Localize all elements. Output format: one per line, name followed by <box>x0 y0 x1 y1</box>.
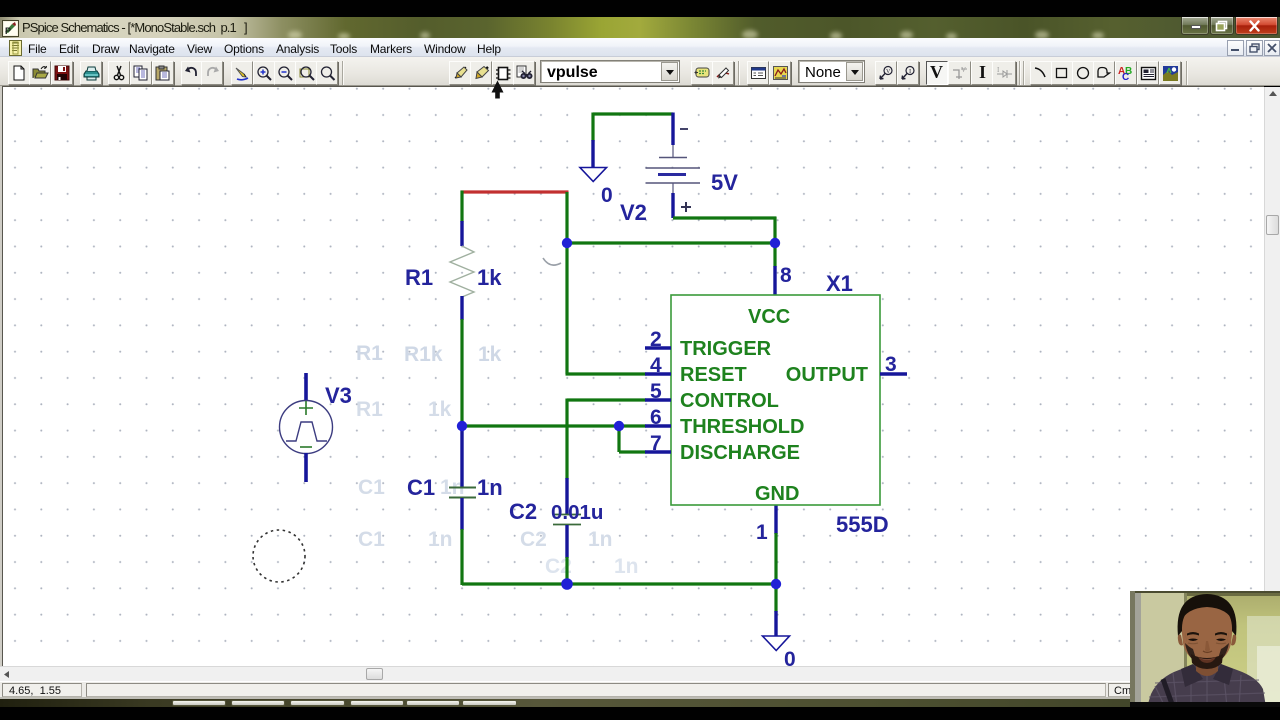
source V3 <box>280 373 333 482</box>
ghost text C1 row <box>358 476 465 499</box>
collar <box>1181 664 1203 687</box>
svg-text:THRESHOLD: THRESHOLD <box>680 416 804 438</box>
print <box>80 61 102 85</box>
wire battery left drop <box>591 113 594 142</box>
pin 4 stub <box>645 372 671 375</box>
copy <box>130 61 152 85</box>
svg-text:1k: 1k <box>428 398 452 421</box>
I marker <box>971 61 993 85</box>
svg-text:TRIGGER: TRIGGER <box>680 338 772 360</box>
ground symbol 0 at IC <box>763 636 790 651</box>
I advanced marker (disabled) <box>992 61 1016 85</box>
eyes <box>1188 639 1198 642</box>
V advanced marker (disabled) <box>948 61 971 85</box>
svg-text:1n: 1n <box>614 555 639 578</box>
battery V2 plate short top <box>659 157 687 159</box>
svg-text:V2: V2 <box>620 200 647 225</box>
wire top battery horizontal <box>593 112 673 115</box>
resistor R1 <box>450 221 474 320</box>
beard <box>1185 643 1197 662</box>
current zoom <box>897 61 919 85</box>
ghost text C2 1n row1 <box>520 528 613 551</box>
battery V2 plate long upper <box>646 167 701 169</box>
wire red corner down to node <box>565 192 568 243</box>
battery V2 plate long lower <box>646 182 701 184</box>
face shading <box>1185 631 1229 659</box>
wire rail drop to node <box>773 217 776 244</box>
svg-text:3: 3 <box>885 353 897 376</box>
draw bus <box>470 61 492 85</box>
wire gnd pin to bus <box>774 533 777 612</box>
svg-text:5V: 5V <box>711 170 738 195</box>
wire threshold node to discharge <box>619 426 646 452</box>
pin 7 stub <box>645 450 671 453</box>
svg-text:R1: R1 <box>356 342 383 365</box>
title bar <box>0 17 1280 38</box>
horizontal scrollbar <box>0 666 1280 681</box>
svg-text:1k: 1k <box>477 265 502 290</box>
cut <box>108 61 130 85</box>
ghost text C1 1n row2 <box>358 528 453 551</box>
wire ground bus <box>462 582 776 585</box>
svg-text:1: 1 <box>756 521 768 544</box>
svg-text:5: 5 <box>650 380 662 403</box>
webcam overlay <box>1130 591 1280 707</box>
svg-text:R1: R1 <box>405 265 433 290</box>
mouth <box>1198 657 1216 663</box>
junction node vcc-left <box>562 238 572 248</box>
svg-text:X1: X1 <box>826 271 853 296</box>
svg-text:555D: 555D <box>836 512 889 537</box>
redo (disabled) <box>201 61 223 85</box>
text tool <box>1115 61 1137 85</box>
head base <box>1181 603 1233 664</box>
simulate <box>769 61 791 85</box>
svg-text:C1: C1 <box>358 476 385 499</box>
capacitor C1 <box>449 427 476 530</box>
draw wire <box>449 61 471 85</box>
pin 3 stub <box>880 372 907 375</box>
new <box>8 61 30 85</box>
battery V2 top pin <box>671 113 674 146</box>
vpulse combo <box>540 60 680 83</box>
battery V2 minus sign <box>680 128 688 130</box>
get new part <box>513 61 535 85</box>
window side edges <box>0 86 2 681</box>
ground pin below bus <box>774 611 777 636</box>
paste <box>152 61 174 85</box>
pin 1 stub <box>774 505 777 534</box>
draw wire pencil <box>231 61 253 85</box>
wire C1 bottom <box>460 529 463 585</box>
zoom out <box>274 61 296 85</box>
mouse cursor arrow <box>492 81 504 99</box>
part tag button <box>691 61 713 85</box>
svg-text:R1: R1 <box>356 398 383 421</box>
svg-text:R1k: R1k <box>404 343 443 366</box>
battery V2 plate short thick <box>658 173 686 176</box>
pin 6 stub <box>645 424 671 427</box>
svg-text:4: 4 <box>650 354 662 377</box>
svg-text:V3: V3 <box>325 383 352 408</box>
wire control horizontal <box>567 398 646 401</box>
svg-text:8: 8 <box>780 264 792 287</box>
svg-text:C1: C1 <box>407 475 435 500</box>
shirt <box>1147 664 1266 707</box>
ghost circle <box>253 530 305 582</box>
save <box>51 61 73 85</box>
junction node gndbus-ic <box>771 579 781 589</box>
status bar <box>0 681 1280 697</box>
wire R1 bottom to threshold node <box>460 319 463 427</box>
svg-text:1n: 1n <box>588 528 613 551</box>
wire node to pin8 <box>773 243 776 267</box>
capacitor C2 <box>553 478 581 558</box>
V marker (active) <box>926 61 948 85</box>
svg-text:0: 0 <box>784 648 796 671</box>
svg-text:0: 0 <box>601 184 613 207</box>
svg-text:RESET: RESET <box>680 364 747 386</box>
edit symbol button <box>712 61 734 85</box>
wire control down to C2 <box>565 399 568 480</box>
pin 8 stub <box>773 266 776 295</box>
svg-text:1n: 1n <box>428 528 453 551</box>
wire R1 top <box>460 191 463 223</box>
ghost text C2 1n row2 <box>545 555 639 578</box>
ghost text R1 row2 <box>356 398 452 421</box>
undo <box>181 61 203 85</box>
svg-text:1k: 1k <box>478 343 502 366</box>
wire red segment <box>461 190 569 193</box>
ghost arc mark <box>543 258 561 265</box>
ground GND0 pin at V2 <box>591 140 594 167</box>
draw box tool <box>1051 61 1073 85</box>
wire node down to reset <box>565 243 568 374</box>
bottom strips <box>0 697 1280 699</box>
wire threshold horizontal <box>462 424 646 427</box>
svg-text:DISCHARGE: DISCHARGE <box>680 442 800 464</box>
wire C2 bottom <box>565 557 568 585</box>
insert picture tool <box>1159 61 1181 85</box>
nose <box>1205 641 1210 652</box>
pin 5 stub <box>645 398 671 401</box>
caption buttons <box>1181 17 1209 35</box>
svg-text:6: 6 <box>650 406 662 429</box>
strap <box>1163 679 1173 707</box>
wire to reset pin4 <box>566 372 647 375</box>
ghost text R1 row1 <box>356 342 502 366</box>
svg-text:2: 2 <box>650 328 662 351</box>
battery V2 bottom pin <box>671 193 674 218</box>
battery V2 plus lead <box>672 183 674 194</box>
ears <box>1178 635 1183 646</box>
svg-text:OUTPUT: OUTPUT <box>786 364 868 386</box>
svg-text:C2: C2 <box>520 528 547 551</box>
junction node threshold-right <box>614 421 624 431</box>
open <box>29 61 51 85</box>
text frame tool <box>1137 61 1159 85</box>
black top letterbox <box>0 0 1280 17</box>
zoom page <box>316 61 338 85</box>
eyebrows <box>1187 632 1199 636</box>
svg-text:GND: GND <box>755 483 799 505</box>
junction node threshold-left <box>457 421 467 431</box>
svg-text:CONTROL: CONTROL <box>680 390 779 412</box>
wire battery plus to rail <box>673 216 776 219</box>
svg-text:7: 7 <box>650 432 662 455</box>
vertical scrollbar <box>1264 87 1280 666</box>
draw arc tool <box>1030 61 1052 85</box>
app icon <box>2 20 19 37</box>
ground symbol 0 at V2 <box>580 168 607 182</box>
neck <box>1196 653 1218 676</box>
schematic canvas <box>2 86 1264 666</box>
battery V2 minus lead <box>672 145 674 157</box>
draw block <box>492 61 514 85</box>
zoom area <box>295 61 317 85</box>
svg-text:P: P <box>5 26 11 36</box>
svg-text:C2: C2 <box>509 499 537 524</box>
setup analysis <box>747 61 769 85</box>
op-amp/timer X1 555D box <box>671 295 880 505</box>
junction node gndbus-c2 <box>561 578 573 590</box>
svg-text:VCC: VCC <box>748 306 790 328</box>
svg-text:1n: 1n <box>477 475 503 500</box>
zoom in <box>253 61 275 85</box>
toolbar <box>0 57 1280 86</box>
svg-text:C1: C1 <box>358 528 385 551</box>
voltage zoom <box>875 61 897 85</box>
menu bar <box>0 38 1280 57</box>
None combo <box>798 60 865 83</box>
draw polyline tool <box>1093 61 1115 85</box>
junction node vcc-right <box>770 238 780 248</box>
svg-text:0.01u: 0.01u <box>551 501 603 524</box>
battery V2 plus sign <box>681 202 691 212</box>
draw circle tool <box>1072 61 1094 85</box>
hair <box>1178 594 1237 636</box>
pin 2 stub <box>645 346 671 349</box>
wire vcc rail horizontal <box>567 241 775 244</box>
mdi window buttons <box>1227 40 1244 56</box>
